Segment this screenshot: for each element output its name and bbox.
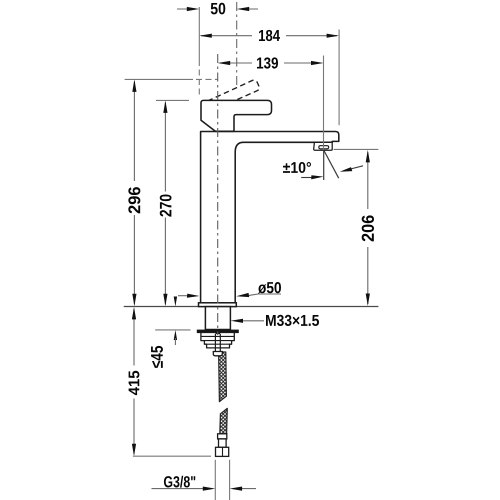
aerator centerline x323.5 bbox=[323, 56, 325, 151]
extension line 270 top y100.4 bbox=[156, 99, 189, 101]
dim 415 bbox=[133, 309, 135, 454]
hose neck bbox=[219, 439, 227, 447]
fork notch bbox=[215, 333, 220, 335]
M33x1.5 label bbox=[266, 315, 319, 326]
G3/8 label bbox=[164, 476, 195, 488]
dim le45 bbox=[174, 297, 177, 307]
hex facet line bbox=[222, 447, 224, 456]
swivel axis dashed bbox=[323, 151, 325, 180]
base flange bbox=[199, 303, 237, 307]
mounting surface line y306.5 bbox=[124, 306, 379, 308]
rubber washer (dark) bbox=[197, 330, 238, 333]
extension line 296 top y79.4 bbox=[125, 78, 193, 80]
hose hex nut bbox=[216, 447, 229, 456]
dim 270 bbox=[164, 103, 166, 305]
extension line front x199 bbox=[198, 7, 200, 60]
faucet body and spout bbox=[201, 132, 339, 303]
stud bbox=[215, 334, 220, 352]
aerator slot bbox=[319, 146, 329, 149]
dia 50 label bbox=[258, 282, 281, 294]
centerline cartridge x236.7 bbox=[236, 2, 238, 85]
stud foot bbox=[213, 352, 222, 356]
G3/8 extension lines bbox=[215, 460, 229, 500]
dim 139 bbox=[220, 62, 322, 64]
handle raised position (dashed) bbox=[208, 80, 260, 101]
hose ferrule bbox=[218, 434, 227, 439]
mounting nut stack bbox=[201, 333, 234, 348]
dim 50 bbox=[177, 8, 196, 10]
swivel tilted line bbox=[324, 151, 339, 179]
aerator level line y149.4 bbox=[334, 148, 379, 150]
extension line spout tip x339.1 bbox=[338, 30, 340, 126]
dim 296 bbox=[133, 82, 135, 305]
hose upper segment bbox=[219, 352, 227, 402]
dim 184 bbox=[201, 35, 337, 37]
aerator housing bbox=[314, 142, 333, 150]
hose end line y456.2 bbox=[133, 455, 211, 457]
column centerline x217.7 bbox=[217, 54, 219, 335]
dim 206 bbox=[367, 153, 369, 305]
hose lower segment bbox=[220, 408, 228, 433]
handle lever (solid) bbox=[201, 100, 272, 131]
threaded shank bbox=[205, 307, 230, 330]
clamp extension line y329.9 bbox=[155, 329, 190, 331]
plusminus 10 label bbox=[283, 162, 311, 173]
